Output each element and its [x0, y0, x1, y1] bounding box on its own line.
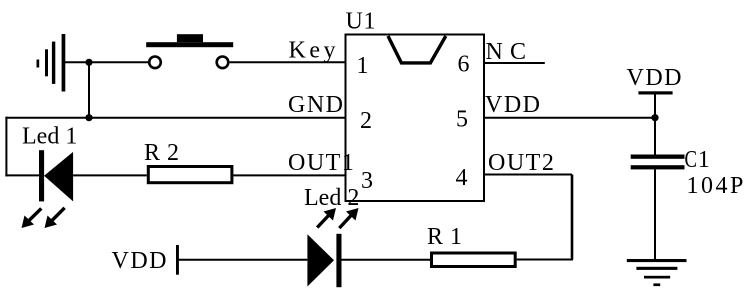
svg-text:R 2: R 2	[144, 140, 180, 166]
wire left to Led1	[5, 174, 39, 176]
wire left vertical	[5, 117, 7, 177]
LED Led2 light arrow 2	[339, 208, 358, 228]
wire VDD rail to junction C	[654, 94, 656, 118]
wire Led1 to R2	[73, 174, 147, 176]
svg-text:3: 3	[361, 168, 375, 194]
LED Led1 cathode bar	[39, 150, 44, 201]
wire GND row	[5, 117, 345, 119]
push button S1 actuator	[177, 34, 203, 42]
wire R1 to Led2	[342, 259, 431, 261]
wire pin 4 (OUT2) right	[484, 174, 572, 176]
svg-text:C: C	[685, 147, 698, 173]
junction dot B (GND node)	[85, 114, 92, 121]
wire button to pin 1 (Key)	[230, 61, 346, 63]
IC U1 notch	[388, 36, 446, 63]
svg-text:R 1: R 1	[427, 224, 463, 250]
svg-text:1: 1	[698, 147, 710, 173]
push button S1 left contact	[149, 57, 161, 69]
svg-text:OUT2: OUT2	[488, 150, 555, 176]
LED Led1 triangle	[44, 152, 73, 202]
svg-text:OUT1: OUT1	[288, 150, 355, 176]
wire pin 5 to VDD node	[484, 117, 655, 119]
svg-text:1: 1	[357, 53, 371, 79]
LED Led2 triangle	[307, 234, 334, 286]
IC U1 body	[346, 35, 485, 202]
svg-text:VDD: VDD	[485, 92, 542, 118]
svg-text:U: U	[346, 9, 363, 35]
svg-text:N: N	[486, 39, 503, 65]
ground symbol (top-left signal ground)	[37, 34, 66, 92]
svg-text:1: 1	[364, 9, 376, 35]
wire junction C to C1	[654, 118, 656, 155]
wire NC stub pin 6	[484, 62, 545, 64]
push button S1 body bar	[146, 42, 233, 47]
ground symbol (bottom-right earth)	[627, 259, 687, 286]
wire OUT2 down	[571, 175, 574, 260]
wire junction A down to GND row	[88, 62, 90, 117]
resistor R2 body	[148, 167, 232, 183]
svg-text:5: 5	[456, 107, 470, 133]
svg-text:VDD: VDD	[112, 248, 169, 274]
svg-text:Led 1: Led 1	[22, 124, 77, 150]
svg-text:GND: GND	[288, 92, 345, 118]
VDD terminal bar (bottom-left)	[176, 245, 179, 275]
LED Led2 cathode bar	[336, 234, 341, 287]
push button S1 right contact	[217, 57, 229, 69]
wire down to R1	[517, 259, 573, 261]
wire ground to button	[64, 61, 149, 63]
wire C1 to ground	[654, 169, 656, 260]
svg-text:VDD: VDD	[627, 65, 684, 91]
wire Led2 to VDD terminal	[178, 259, 307, 261]
resistor R1 body	[432, 253, 516, 267]
capacitor C1 top plate	[631, 155, 685, 159]
LED Led1 light arrow 1	[22, 208, 42, 228]
svg-text:2: 2	[360, 108, 374, 134]
svg-text:104P: 104P	[687, 173, 746, 199]
VDD rail symbol (bar)	[638, 91, 672, 94]
LED Led2 light arrow 1	[317, 208, 336, 228]
svg-text:4: 4	[456, 165, 470, 191]
svg-text:C: C	[510, 39, 526, 65]
capacitor C1 bottom plate	[631, 165, 685, 169]
svg-text:Key: Key	[289, 38, 339, 64]
junction dot A (ground/key node)	[85, 59, 92, 66]
svg-text:Led 2: Led 2	[304, 185, 359, 211]
wire R2 to pin 3 (OUT1)	[233, 174, 345, 176]
svg-text:6: 6	[458, 52, 472, 78]
LED Led1 light arrow 2	[45, 208, 65, 228]
junction dot C (VDD node)	[651, 114, 658, 121]
